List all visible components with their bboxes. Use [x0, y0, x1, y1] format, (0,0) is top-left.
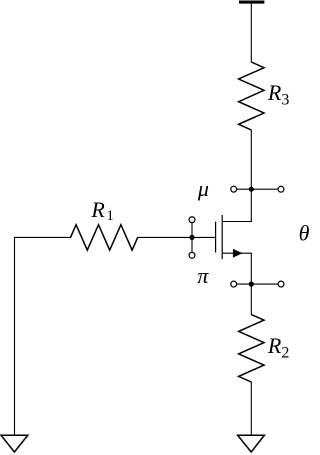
resistor R1 — [71, 225, 138, 250]
nmos transistor: drain lead — [222, 221, 252, 223]
wire: gate port stubs vertical — [191, 223, 193, 252]
port terminal above gate — [189, 217, 195, 223]
port terminal left of pi — [231, 281, 237, 287]
nmos transistor: source lead — [222, 252, 252, 254]
port terminal below gate — [189, 252, 195, 258]
wire: mu node horizontal stub — [237, 188, 278, 190]
wire: rail to R3 top — [250, 2, 252, 62]
node gate junction dot — [189, 235, 194, 240]
wire: left node to R1 — [15, 236, 71, 238]
port terminal right of pi — [278, 281, 284, 287]
svg-text:R2: R2 — [267, 333, 289, 362]
resistor R3 — [239, 62, 264, 130]
port terminal left of mu — [231, 186, 237, 192]
wire: left vertical down to ground — [14, 237, 16, 435]
port terminal right of mu — [278, 186, 284, 192]
wire: gate lead from R1 to gate bar — [138, 236, 216, 238]
ground (right) — [238, 435, 265, 452]
svg-text:π: π — [197, 263, 209, 288]
nmos transistor: channel bar — [221, 215, 223, 259]
svg-text:θ: θ — [299, 221, 309, 246]
wire: R2 bottom to ground — [250, 382, 252, 435]
svg-text:R3: R3 — [267, 80, 289, 109]
nmos transistor: gate bar — [215, 222, 217, 253]
node mu junction dot — [249, 187, 254, 192]
ground (left) — [1, 435, 28, 452]
wire: R3 bottom to drain corner — [250, 130, 252, 222]
wire: source corner down to pi node and R2 — [250, 253, 252, 314]
svg-text:R1: R1 — [90, 197, 113, 224]
power rail VDD (top bar) — [239, 1, 264, 4]
node pi junction dot — [249, 282, 254, 287]
resistor R2 — [239, 315, 264, 383]
svg-text:μ: μ — [197, 176, 209, 201]
wire: pi node horizontal stub — [237, 283, 278, 285]
nmos transistor: source arrow — [233, 249, 243, 258]
